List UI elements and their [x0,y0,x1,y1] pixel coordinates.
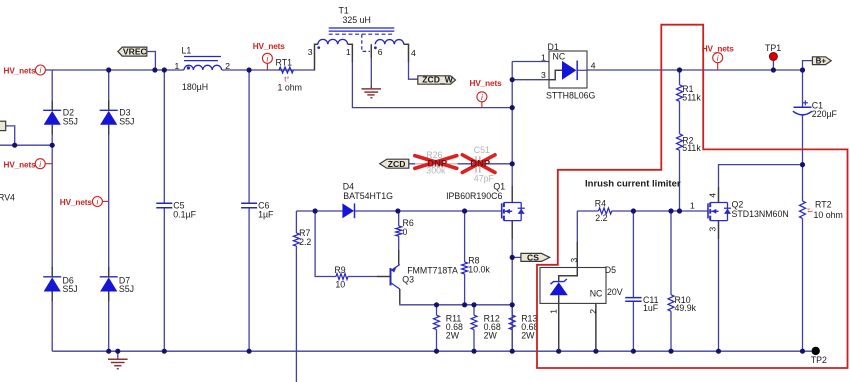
wire D1 pin4 to B+ bus [587,69,803,71]
testpoint TP1 [765,43,781,60]
svg-text:HV_nets: HV_nets [4,67,37,76]
svg-text:i: i [717,54,719,63]
wire VREC drop [147,52,156,71]
diode D1 box [549,51,587,88]
svg-text:i: i [39,66,41,75]
T1 phase dots [317,46,320,49]
svg-text:4: 4 [591,61,596,71]
svg-text:4: 4 [411,48,416,58]
wire C6 column [248,70,250,351]
svg-text:C51: C51 [474,145,490,155]
net label HV_nets left lower [60,197,103,208]
wire HV_nets stub T1 [481,102,483,108]
svg-text:S5J: S5J [119,284,134,294]
ground T1 shield [362,86,382,98]
wire HV_nets stub left2 [45,163,52,165]
svg-text:47pF: 47pF [474,174,495,184]
resistor R1 [677,84,702,102]
wire L1 pin2 to T1 pin3 [222,44,318,70]
wire D3 D7 column [108,70,110,351]
wire Q2 drain [719,165,803,203]
svg-text:DNP: DNP [427,158,447,169]
svg-text:i: i [481,93,483,102]
resistor R7 [293,228,311,247]
wire ground stub bottom [117,351,119,358]
wire T1 pin1 down and across [348,44,513,107]
wire Q3 collector to R11 row [400,289,512,305]
svg-text:6: 6 [378,47,383,57]
svg-text:HV_nets: HV_nets [470,79,503,88]
wire D1 pin3 stub [512,79,549,81]
dnp resistor R26 [415,150,457,176]
inductor L1 [184,57,222,71]
svg-text:L1: L1 [182,46,192,56]
svg-text:1 ohm: 1 ohm [278,83,302,93]
wire HV_nets stub left3 [102,200,108,202]
svg-text:1µF: 1µF [258,209,274,219]
svg-text:T1: T1 [339,6,349,16]
zener D5 box [540,268,606,304]
svg-text:2: 2 [588,309,598,314]
svg-text:HV_nets: HV_nets [253,42,286,51]
wire D5 pin2 leg [595,303,597,351]
thermistor RT1 [279,67,293,73]
diode D2 [43,108,78,127]
capacitor C11 [625,298,641,302]
resistor R4 [595,199,612,223]
capacitor C1 [793,100,838,119]
wire Q1 source column [511,221,513,352]
wire gate line R4 to Q2 [577,210,708,212]
capacitor C5 [156,203,172,208]
wire gate line D4 row [296,210,501,212]
varistor RV4 clipped [0,121,6,130]
svg-text:ZCD_W: ZCD_W [422,75,453,85]
svg-text:VREC: VREC [123,47,147,57]
net label HV_nets top left [4,65,46,76]
svg-text:1: 1 [346,47,351,57]
svg-text:i: i [266,55,268,64]
svg-text:NC: NC [590,288,603,298]
svg-text:0: 0 [403,227,408,237]
wire R11 legs [436,305,438,351]
svg-text:S5J: S5J [63,116,78,126]
svg-text:RT2: RT2 [815,200,832,210]
svg-text:180µH: 180µH [182,82,208,92]
svg-text:4: 4 [707,193,717,198]
svg-text:HV_nets: HV_nets [60,198,93,207]
wire R10 column [670,211,672,351]
L1 phase dot [187,66,190,69]
resistor R9 [334,265,348,289]
svg-text:STD13NM60N: STD13NM60N [732,209,789,219]
wire R13 legs [511,305,513,351]
svg-text:R4: R4 [595,199,606,209]
svg-text:i: i [96,198,98,207]
svg-text:RT1: RT1 [276,58,293,68]
resistor R6 [396,218,414,237]
svg-text:B+: B+ [816,57,827,66]
wire T1 pin4 to ZCD_W [404,44,418,79]
svg-text:STTH8L06G: STTH8L06G [546,90,596,100]
net flag ZCD_W [418,75,456,85]
wire T1 pin6 ground stub [370,44,372,86]
svg-text:CS: CS [527,252,539,262]
zener diode D5 [548,258,622,314]
net label HV_nets at R1 [702,45,735,63]
transformer T1 [318,28,404,51]
svg-text:511k: 511k [682,93,701,103]
resistor R8 [462,255,491,274]
wire R8 column [464,211,466,305]
mosfet Q2 [708,203,731,221]
svg-text:HV_nets: HV_nets [4,160,37,169]
wire RV4 box to D2 column [0,126,52,145]
svg-text:D4: D4 [343,181,354,191]
resistor R2 [677,134,702,153]
svg-text:3: 3 [308,47,313,57]
svg-text:TP2: TP2 [811,355,827,365]
resistor R12 [471,314,501,341]
svg-text:TP1: TP1 [765,43,781,53]
svg-text:IPB60R190C6: IPB60R190C6 [446,191,502,201]
svg-text:D5: D5 [605,265,616,275]
svg-text:1: 1 [690,200,695,210]
svg-text:220µF: 220µF [812,109,838,119]
wire D1 pin1 stub [512,61,549,63]
wire D2 D6 column [51,70,53,351]
svg-text:S5J: S5J [119,116,134,126]
wire HV_nets stub RT1 [266,63,268,70]
ground bottom [108,359,128,368]
mosfet Q1 [502,203,525,221]
wire top bus HV_nets to L1 [45,69,184,71]
wire R9 branch [315,211,390,277]
dnp cross C51 [462,155,495,173]
svg-text:NC: NC [553,52,566,62]
svg-text:2W: 2W [521,331,535,341]
svg-text:1: 1 [541,52,546,62]
dnp capacitor C51 [474,145,495,184]
svg-text:3: 3 [707,227,717,232]
svg-text:BAT54HT1G: BAT54HT1G [343,191,393,201]
power flag B+ [812,57,831,66]
diode D3 [100,108,135,127]
svg-text:511k: 511k [682,143,701,153]
wire D5 pin1 leg [558,295,560,351]
svg-text:D1: D1 [548,42,559,52]
resistor R10 [668,295,697,313]
svg-text:i: i [39,160,41,169]
svg-text:t°: t° [284,75,289,84]
net label HV_nets at RT1 [253,42,286,64]
svg-text:ZCD: ZCD [388,159,406,169]
symbol pin stubs dark [52,44,718,350]
wire bottom bus [52,350,811,352]
wire C1 RT2 column [802,70,804,351]
testpoint TP2 [811,347,827,365]
svg-text:20V: 20V [607,287,623,297]
svg-text:Q3: Q3 [402,275,414,285]
wire Q1 drain column [511,62,513,203]
svg-text:t°: t° [806,207,815,212]
svg-text:10.0k: 10.0k [468,264,490,274]
net flag CS [521,252,550,262]
wire Q2 source [718,221,720,352]
net label HV_nets left mid [4,159,46,170]
svg-text:49.9k: 49.9k [675,303,697,313]
svg-text:1: 1 [548,309,558,314]
diode D6 [43,275,77,294]
wire ZCD to Q1 drain [409,163,512,165]
svg-text:1: 1 [175,61,180,71]
wire R7 column offpage [295,211,297,382]
net flag VREC [118,47,147,57]
svg-text:FMMT718TA: FMMT718TA [407,265,458,275]
wire C5 column [163,70,165,351]
wire CS stub [512,256,521,258]
svg-text:3: 3 [541,70,546,80]
transistor Q3 [391,265,459,290]
wire TP1 stub [772,61,774,71]
wire HV_nets stub R1 [717,63,719,70]
svg-text:2.2: 2.2 [595,213,607,223]
svg-text:3: 3 [569,258,579,263]
svg-text:10: 10 [335,279,345,289]
wire D5 pin3 column [559,211,578,282]
svg-text:R9: R9 [334,265,345,275]
svg-text:0.1µF: 0.1µF [173,209,196,219]
svg-text:1uF: 1uF [643,303,659,313]
inrush current limiter red outline [537,25,848,368]
svg-text:RV4: RV4 [0,192,15,202]
resistor R13 [509,314,538,341]
net flag ZCD [380,159,409,169]
wire R1 R2 column [679,70,681,211]
diode D7 [100,275,134,294]
dnp cross R26 [415,156,457,169]
wire C11 column [632,211,634,351]
svg-text:DNP: DNP [470,158,490,169]
svg-text:S5J: S5J [63,284,78,294]
svg-text:2W: 2W [484,331,498,341]
wire R6 column [398,211,400,265]
svg-text:Inrush current limiter: Inrush current limiter [585,179,681,190]
net label HV_nets at T1 out [470,79,503,102]
wire B+ stub [803,61,813,70]
svg-text:325 uH: 325 uH [343,15,371,25]
svg-text:2W: 2W [446,331,460,341]
diode D1 [541,42,596,101]
svg-text:10 ohm: 10 ohm [814,210,843,220]
resistor R11 [434,314,464,341]
wire R12 legs [473,305,475,351]
svg-text:2.2: 2.2 [299,237,311,247]
svg-text:2: 2 [225,61,230,71]
thermistor RT2 [800,200,843,220]
diode D4 [342,181,393,218]
capacitor C6 [241,203,257,208]
